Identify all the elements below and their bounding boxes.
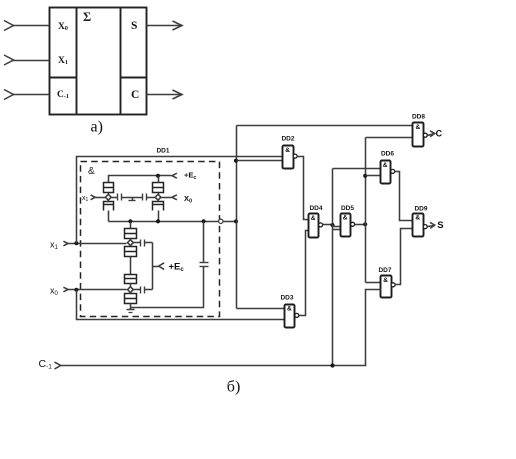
wire diamond to VT6	[130, 246, 132, 247]
wire P to DD2 input2	[237, 160, 283, 162]
node P junction	[234, 219, 238, 223]
svg-text:DD7: DD7	[378, 267, 391, 274]
svg-text:&: &	[415, 215, 420, 222]
wire VT3 drain to diamond	[158, 193, 160, 195]
svg-text:DD8: DD8	[412, 114, 425, 121]
wire P to DD3 input1	[237, 308, 285, 310]
gate capacitor chain-2	[140, 287, 142, 294]
svg-text:&: &	[287, 306, 292, 313]
wire cap2 to right diamond	[147, 197, 156, 199]
svg-text:DD6: DD6	[381, 151, 394, 158]
svg-text:а): а)	[91, 119, 103, 136]
input C-1 chevron	[55, 362, 61, 369]
svg-text:Σ: Σ	[83, 10, 91, 24]
svg-text:S: S	[131, 20, 137, 32]
wire DD5net to DD7 input1	[366, 282, 381, 284]
wire DD3 out to DD4	[299, 231, 309, 316]
input wire X1	[13, 60, 50, 62]
svg-text:DD1: DD1	[156, 148, 169, 155]
DD1 dashed box	[81, 162, 220, 317]
svg-text:б): б)	[227, 379, 240, 396]
svg-text:&: &	[383, 162, 388, 169]
wire C-1	[61, 290, 381, 366]
input wire C-1	[13, 94, 50, 96]
svg-text:&: &	[285, 147, 290, 154]
svg-text:&: &	[343, 215, 348, 222]
gate DD7	[381, 276, 392, 298]
svg-text:C: C	[131, 89, 139, 101]
wire P vertical	[236, 126, 238, 309]
wire VT4 down to rail	[158, 211, 160, 222]
gate node diamond right	[155, 194, 161, 200]
wire DD8 out arrow	[428, 134, 435, 136]
output wire C	[147, 94, 183, 96]
transistor VT7	[125, 275, 137, 284]
wire VT5 to diamond	[130, 239, 132, 240]
input x0 chevron	[63, 287, 68, 292]
wire DD2 out to DD4	[297, 157, 309, 220]
wire DD6 out to DD9 input1	[395, 172, 413, 221]
gate node diamond chain-1	[128, 240, 134, 246]
gate DD3	[285, 305, 295, 328]
node C-1 junction	[330, 363, 334, 367]
svg-text:DD5: DD5	[341, 205, 354, 212]
+Ec bracket	[152, 243, 154, 290]
gate DD8	[413, 123, 424, 147]
gate DD9	[413, 214, 424, 237]
wire DD5net vertical	[365, 138, 367, 283]
wire P to DD8 input1	[237, 125, 413, 127]
gate DD6	[381, 161, 391, 184]
gate node diamond left	[105, 194, 111, 200]
+Ec chevron mid	[159, 263, 165, 270]
wire x0	[68, 289, 127, 291]
wire diamond to cap1	[112, 197, 118, 199]
transistor VT6	[125, 247, 137, 257]
output wire S	[147, 25, 183, 27]
gate ground stub	[132, 198, 134, 201]
svg-text:DD4: DD4	[309, 205, 322, 212]
wire to DD6 input1	[333, 168, 381, 170]
gate DD2	[283, 146, 294, 169]
wire x1 to DD2 (up and right)	[77, 157, 283, 244]
node chain-rail	[128, 219, 132, 223]
node DD5net to DD6	[363, 174, 367, 178]
wire DD5 out	[355, 224, 366, 226]
svg-text:&: &	[383, 277, 388, 284]
node x1 junction	[74, 241, 78, 245]
transistor VT4 (lower-right)	[153, 202, 164, 211]
wire VT1 drain to diamond	[108, 193, 110, 195]
wire DD4 out	[323, 224, 333, 226]
wire VT3 top	[158, 176, 160, 183]
wire carry vertical	[332, 169, 334, 366]
X0 chevron	[172, 195, 177, 200]
transistor VT1 (upper-left)	[104, 183, 114, 193]
svg-text:&: &	[311, 215, 316, 222]
gate capacitor chain-1	[140, 240, 142, 247]
wire VT8 to ground	[130, 304, 132, 310]
capacitor C1	[200, 266, 209, 268]
node x0 junction	[74, 288, 78, 292]
transistor VT2 (lower-left)	[104, 202, 114, 211]
wire to DD5 input1	[333, 226, 341, 228]
wire DD7 out to DD9 input2	[395, 229, 413, 285]
input wire X0	[13, 25, 50, 27]
gate node diamond chain-2	[128, 287, 134, 293]
wire capacitor top to rail	[203, 222, 205, 263]
+Ec chevron top	[172, 173, 177, 178]
wire ground to capacitor bottom	[131, 267, 204, 308]
gate wire x1 to left diamond	[95, 197, 106, 199]
wire VT2 down to rail	[108, 211, 110, 222]
svg-text:DD3: DD3	[280, 295, 293, 302]
svg-text:DD9: DD9	[414, 206, 427, 213]
node DD4/C-1 junction	[330, 223, 334, 227]
wire DD5net to DD6 input2	[366, 175, 381, 177]
adder block U1 (sum symbol)	[50, 8, 147, 115]
wire terminal to node P	[223, 221, 237, 223]
x1 inner chevron	[91, 195, 96, 200]
wire to DD5 input2	[333, 229, 341, 231]
node rail to VT right	[156, 174, 160, 178]
input x1 chevron	[63, 241, 68, 246]
wire DD9 out arrow	[428, 226, 435, 227]
wire right diamond to X0 chevron	[161, 197, 172, 199]
wire x1	[68, 243, 127, 245]
wire DD5net to DD8 input2	[366, 137, 413, 139]
+Ec rail top	[109, 176, 172, 183]
gate cap chain-2 wire	[134, 289, 141, 291]
wire VT2 to diamond	[108, 201, 110, 202]
wire cap to bracket top	[145, 242, 153, 244]
wire VT7 to diamond	[130, 284, 132, 287]
gate capacitor left	[117, 194, 119, 201]
node cap-rail	[202, 219, 206, 223]
svg-text:DD2: DD2	[281, 136, 294, 143]
wire cap1 to cap2	[122, 197, 143, 199]
gate cap chain-1 wire	[134, 242, 141, 244]
wire VT4 to diamond	[158, 201, 160, 202]
svg-text:&: &	[88, 166, 95, 177]
wire x0 to DD3 (down and right)	[77, 290, 285, 320]
transistor VT3 (upper-right)	[153, 183, 164, 193]
svg-text:S: S	[437, 220, 443, 231]
svg-text:C: C	[436, 128, 443, 138]
wire VT6 to VT7	[130, 257, 132, 275]
svg-text:&: &	[416, 124, 421, 131]
transistor VT8	[125, 294, 137, 304]
DD1 output rail	[109, 221, 219, 223]
svg-text:x1: x1	[82, 195, 89, 203]
transistor VT5	[125, 229, 137, 239]
node P to DD2	[234, 159, 238, 163]
wire chain top	[130, 222, 132, 229]
wire diamond to VT8	[130, 293, 132, 294]
gate DD5	[341, 214, 351, 237]
DD1 output terminal circle	[219, 219, 223, 223]
gate DD4	[309, 214, 319, 238]
node VT4-rail	[156, 219, 160, 223]
ground symbol	[127, 309, 135, 311]
node DD5 out junction	[363, 222, 367, 226]
gate capacitor right	[142, 194, 144, 201]
+Ec bracket tap	[153, 266, 159, 268]
wire cap to bracket bottom	[145, 289, 153, 291]
